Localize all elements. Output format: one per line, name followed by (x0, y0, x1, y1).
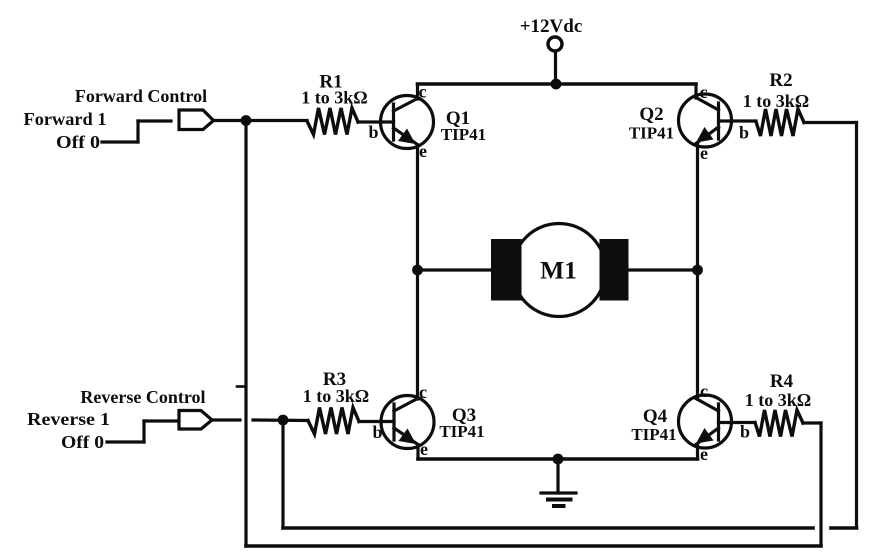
wire R3 to Q3 base (359, 420, 394, 423)
svg-text:Forward 1: Forward 1 (24, 109, 107, 129)
svg-text:TIP41: TIP41 (629, 124, 674, 143)
svg-text:e: e (419, 141, 427, 161)
svg-text:b: b (369, 122, 379, 142)
svg-text:Q2: Q2 (639, 104, 663, 125)
node motor left junction (412, 265, 423, 276)
wire Q4 emitter to ground rail (696, 444, 699, 459)
svg-text:Off 0: Off 0 (56, 132, 100, 152)
resistor R2 (756, 109, 804, 136)
svg-text:R4: R4 (770, 371, 794, 392)
wire Q2 base to R2 (719, 119, 757, 122)
transistor Q2 (679, 94, 732, 147)
wire Q2 collector (694, 84, 697, 98)
svg-text:TIP41: TIP41 (439, 422, 484, 441)
wire motor right lead (629, 268, 698, 271)
wire forward outer vertical (244, 121, 247, 547)
wire reverse control input step waveform (107, 421, 176, 442)
svg-text:b: b (373, 422, 383, 442)
ground (541, 459, 576, 506)
svg-text:1 to 3kΩ: 1 to 3kΩ (301, 88, 367, 108)
wire forward bottom horizontal (246, 544, 821, 548)
svg-text:Reverse Control: Reverse Control (80, 387, 205, 407)
wire reverse bottom horizontal left of crossover (283, 526, 813, 530)
resistor R1 (307, 108, 358, 135)
svg-text:Forward Control: Forward Control (75, 86, 207, 106)
wire R4 vertical down (819, 423, 822, 546)
svg-text:TIP41: TIP41 (441, 125, 486, 144)
svg-text:c: c (700, 82, 708, 102)
wire R1 to Q1 base (358, 120, 394, 123)
wire motor left lead (418, 268, 493, 271)
wire Q3 emitter to ground rail (416, 445, 419, 459)
wire ground rail (418, 457, 698, 461)
wire Q1 emitter / left leg down to Q3 collector (416, 145, 419, 399)
svg-text:1 to 3kΩ: 1 to 3kΩ (743, 91, 809, 111)
svg-text:Off 0: Off 0 (61, 432, 104, 452)
wire Q1 collector (416, 84, 419, 99)
svg-text:1 to 3kΩ: 1 to 3kΩ (745, 390, 811, 410)
svg-text:e: e (700, 444, 708, 464)
transistor Q4 (679, 395, 732, 448)
svg-text:b: b (740, 422, 750, 442)
wire right outer vertical (reverse to R2) (855, 123, 858, 529)
wire reverse flag to crossing (212, 418, 240, 421)
svg-text:+12Vdc: +12Vdc (520, 16, 583, 37)
svg-text:b: b (739, 123, 749, 143)
svg-text:Q4: Q4 (643, 406, 668, 427)
wire R2 right to corner (804, 121, 857, 124)
wire forward control input step waveform (102, 121, 171, 142)
node motor right junction (692, 265, 703, 276)
forward input flag (179, 110, 214, 130)
svg-text:M1: M1 (540, 256, 577, 285)
node forward junction (241, 115, 252, 126)
svg-text:TIP41: TIP41 (631, 425, 676, 444)
svg-text:c: c (419, 82, 427, 102)
node reverse junction (278, 415, 289, 426)
wire top rail (418, 82, 697, 86)
wire Q4 base to R4 (719, 421, 756, 424)
svg-text:Reverse 1: Reverse 1 (27, 409, 110, 429)
reverse input flag (179, 411, 212, 430)
wire R4 right to corner (803, 421, 821, 424)
svg-text:R2: R2 (769, 70, 792, 91)
+12Vdc supply terminal (548, 37, 562, 84)
svg-text:c: c (419, 382, 427, 402)
svg-text:e: e (700, 143, 708, 163)
artifact dash (237, 385, 246, 388)
wire Q2 emitter / right leg down to Q4 collector (696, 144, 699, 399)
resistor R4 (755, 410, 803, 437)
motor M1 (491, 224, 629, 317)
wire crossing resume to R3 (253, 418, 308, 422)
transistor Q1 (381, 96, 434, 149)
svg-text:1 to 3kΩ: 1 to 3kΩ (303, 386, 369, 406)
node +12V junction (551, 79, 562, 90)
wire forward flag to R1 (214, 119, 307, 122)
node ground junction (553, 454, 564, 465)
svg-text:e: e (420, 439, 428, 459)
wire reverse bottom horizontal right of crossover (831, 526, 857, 530)
wire reverse inner vertical (281, 420, 284, 528)
transistor Q3 (381, 396, 434, 449)
svg-text:c: c (700, 381, 708, 401)
resistor R3 (308, 408, 359, 435)
